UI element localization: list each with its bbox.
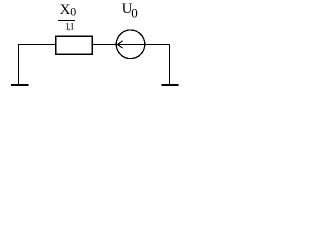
underline of X0 [58, 20, 75, 22]
wire [18, 44, 56, 46]
wire [145, 44, 170, 46]
svg-text:X: X [60, 2, 71, 18]
label X0 [60, 2, 77, 19]
wire [92, 44, 116, 46]
arrow inside source (points left) [117, 41, 144, 47]
label U0 [122, 1, 138, 20]
source U0 circle [116, 30, 145, 59]
resistor X0 [56, 36, 92, 54]
svg-text:0: 0 [131, 5, 138, 20]
wire corner down [169, 45, 171, 85]
svg-text:1: 1 [70, 23, 75, 33]
ground left [11, 45, 29, 86]
svg-text:0: 0 [70, 4, 76, 18]
ground right [162, 84, 179, 86]
value 1,1 [65, 23, 75, 33]
